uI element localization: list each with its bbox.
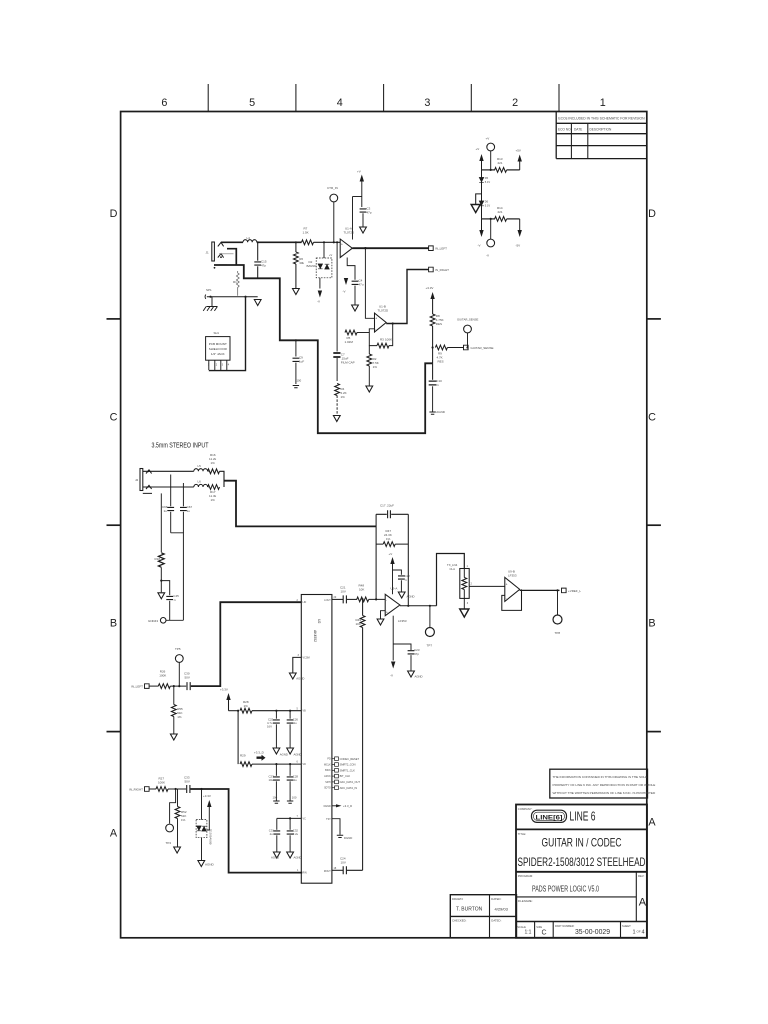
svg-text:1%: 1%: [211, 461, 216, 465]
svg-text:GUITAR IN / CODEC: GUITAR IN / CODEC: [542, 836, 622, 850]
wire: [170, 685, 186, 687]
connector J1 guitar jack: [212, 242, 234, 269]
capacitor C21: [343, 595, 346, 603]
wire to codec RIN: [191, 789, 303, 873]
op-amp U1-A TL072D: [340, 239, 352, 258]
inductor L4: [243, 240, 257, 243]
diode pair D10 BAV99: [201, 789, 203, 820]
test point TP7: [429, 606, 431, 628]
film capacitor C7: [336, 333, 338, 352]
svg-text:ECO NO: ECO NO: [558, 128, 571, 132]
test point -V: [490, 219, 492, 239]
svg-text:47p: 47p: [367, 211, 372, 215]
capacitor C10: [432, 363, 434, 380]
bias line to R5: [336, 242, 338, 332]
resistor R14 221: [495, 217, 507, 222]
svg-text:3.5mm STEREO INPUT: 3.5mm STEREO INPUT: [152, 443, 210, 450]
test point TP4: [170, 789, 176, 824]
LINE6 logo: [532, 810, 567, 822]
svg-text:THE INFORMATION CONTAINED IN T: THE INFORMATION CONTAINED IN THIS DRAWIN…: [553, 775, 648, 779]
svg-text:+3.3V: +3.3V: [203, 794, 211, 798]
svg-text:TP4: TP4: [166, 841, 172, 845]
op-amp U9-A LF353: [385, 594, 400, 615]
resistor R26 100K: [158, 684, 170, 689]
svg-text:1.02M: 1.02M: [345, 340, 354, 344]
svg-text:L5: L5: [198, 464, 202, 468]
wire L4 to R7: [257, 241, 302, 243]
svg-text:C: C: [542, 930, 547, 937]
svg-text:10K: 10K: [359, 588, 364, 592]
resistor R8 4.75K: [430, 314, 435, 326]
ground below C3: [360, 227, 367, 233]
svg-text:10V: 10V: [341, 861, 346, 865]
svg-text:1u: 1u: [164, 509, 168, 513]
ground at wire end: [254, 300, 261, 306]
svg-text:SMRT1_CLK: SMRT1_CLK: [340, 768, 356, 772]
svg-text:5: 5: [249, 97, 255, 109]
svg-text:+V: +V: [486, 137, 490, 141]
ground bus wire from jack sleeve: [214, 265, 433, 433]
wire to U1-B + input: [365, 248, 374, 318]
ground AGND: [289, 673, 296, 679]
op-amp U9-B LF353: [505, 577, 520, 601]
svg-text:TL072D: TL072D: [378, 309, 390, 313]
svg-text:LINE 6: LINE 6: [570, 808, 596, 823]
svg-text:1uF: 1uF: [299, 360, 304, 364]
svg-text:-V: -V: [317, 300, 320, 304]
svg-text:PD: PD: [327, 758, 331, 761]
svg-text:.1: .1: [173, 598, 176, 602]
svg-text:R18: R18: [155, 557, 161, 561]
svg-text:TL072D: TL072D: [344, 231, 356, 235]
svg-text:+V: +V: [476, 147, 480, 151]
svg-text:-V: -V: [343, 290, 346, 294]
wire jack tip to L4: [221, 241, 243, 243]
svg-text:RIN: RIN: [303, 872, 307, 875]
svg-text:10K: 10K: [356, 622, 361, 626]
wire bottom: [152, 486, 194, 488]
svg-text:TP7: TP7: [427, 644, 433, 648]
svg-text:+: +: [375, 317, 377, 321]
svg-text:47p: 47p: [261, 264, 266, 268]
resistor R52 51K: [177, 789, 179, 807]
wire: [149, 788, 156, 790]
ground AGND: [287, 748, 294, 754]
svg-text:CTR_IN: CTR_IN: [327, 186, 338, 190]
svg-text:TST: TST: [326, 818, 331, 821]
power -V arrow below D2: [318, 291, 322, 298]
svg-text:B: B: [110, 618, 117, 630]
svg-text:SHIELD FOR: SHIELD FOR: [209, 347, 228, 351]
op-amp U1-B TL072D: [375, 313, 387, 332]
svg-text:TP8: TP8: [555, 631, 561, 635]
capacitor C45: [161, 581, 169, 596]
svg-text:LF353: LF353: [398, 619, 407, 623]
svg-text:SCALE: SCALE: [517, 925, 526, 929]
svg-text:PADS POWER LOGIC V5.0: PADS POWER LOGIC V5.0: [532, 884, 599, 893]
svg-text:-: -: [386, 599, 387, 603]
title block outline: [516, 805, 647, 938]
svg-text:221: 221: [498, 210, 503, 214]
zone tick left D|C: [107, 318, 121, 320]
resistor R6 30k: [295, 242, 297, 252]
connector CHAS_GND: [160, 618, 166, 624]
ground AGND: [287, 852, 294, 858]
svg-text:U2: U2: [317, 619, 321, 623]
svg-text:J1: J1: [206, 251, 210, 255]
ground below R6: [293, 289, 300, 295]
zone tick left B|A: [107, 731, 121, 733]
ground below R4: [333, 416, 340, 422]
ground AGND: [273, 852, 280, 858]
resistor R7 1.5K: [302, 240, 314, 245]
capacitor C31: [276, 818, 278, 829]
svg-text:221: 221: [498, 161, 503, 165]
svg-text:2: 2: [512, 97, 518, 109]
svg-text:1%: 1%: [177, 715, 182, 719]
svg-text:D10 BAV99: D10 BAV99: [209, 829, 213, 845]
svg-text:5.1V: 5.1V: [485, 204, 491, 208]
svg-text:1/4" JACK: 1/4" JACK: [211, 352, 225, 356]
wire: [347, 598, 357, 600]
svg-text:100: 100: [273, 796, 278, 800]
svg-text:B: B: [648, 618, 655, 630]
svg-text:SP1: SP1: [206, 288, 212, 292]
svg-text:SDTI: SDTI: [325, 781, 331, 784]
svg-text:+V: +V: [389, 552, 393, 556]
svg-text:1:1: 1:1: [525, 930, 532, 936]
svg-text:1%: 1%: [386, 537, 391, 541]
svg-text:16V: 16V: [267, 725, 272, 729]
svg-text:2.2u: 2.2u: [293, 832, 299, 836]
resistor R5 1.02M: [345, 330, 357, 335]
svg-text:100K: 100K: [158, 781, 165, 785]
svg-text:BIT_CLK: BIT_CLK: [340, 774, 351, 778]
svg-text:J2: J2: [135, 478, 139, 482]
diode D6: [479, 201, 484, 206]
svg-text:DATED:: DATED:: [491, 919, 501, 923]
wire shield pins to ground bus: [209, 297, 246, 371]
ground below R2: [366, 386, 373, 392]
svg-text:WITHOUT THE WRITTEN PERMISSION: WITHOUT THE WRITTEN PERMISSION OF LINE 6…: [553, 791, 656, 795]
svg-text:L6: L6: [198, 480, 202, 484]
svg-text:-V: -V: [390, 674, 393, 678]
svg-text:U9-A: U9-A: [391, 587, 398, 591]
connector IN_RIGHT: [429, 267, 434, 272]
svg-text:PCB MOUNT: PCB MOUNT: [209, 342, 227, 346]
resistor R9 4.7K: [432, 346, 434, 348]
svg-text:.1u: .1u: [293, 721, 297, 725]
ground AGND: [273, 748, 280, 754]
connector GUITAR_SENSE: [464, 345, 469, 350]
svg-text:OF: OF: [637, 930, 641, 934]
svg-text:1u: 1u: [187, 509, 191, 513]
wire codec VC: [277, 817, 302, 819]
wire to -5V: [507, 218, 520, 220]
svg-text:REV:: REV:: [638, 874, 645, 878]
svg-text:D5: D5: [485, 176, 489, 180]
capacitor C24: [343, 866, 346, 874]
capacitor C4: [352, 281, 359, 284]
svg-text:3: 3: [424, 97, 430, 109]
drawn block: [450, 895, 516, 938]
svg-text:ROUT: ROUT: [324, 870, 331, 873]
resistor R48: [357, 597, 369, 602]
resistor R16 11.2k: [208, 469, 220, 474]
wire: [168, 788, 186, 790]
svg-text:R29: R29: [240, 754, 246, 758]
svg-text:1%: 1%: [181, 818, 186, 822]
svg-text:D: D: [110, 208, 118, 220]
wire: [149, 685, 158, 687]
svg-text:1: 1: [600, 97, 606, 109]
svg-text:1.5K: 1.5K: [303, 231, 309, 235]
svg-text:DGND: DGND: [324, 805, 331, 808]
resistor R29: [240, 762, 252, 767]
connector +VREF_L: [562, 588, 567, 593]
resistor R55 51K: [173, 686, 175, 704]
svg-text:LRCK: LRCK: [324, 775, 331, 778]
wire: [347, 869, 363, 871]
svg-text:10u: 10u: [269, 778, 274, 782]
svg-text:+V: +V: [357, 170, 361, 174]
ground below R52: [174, 847, 181, 853]
ground DGND at codec TST pin: [332, 819, 340, 835]
svg-text:47p: 47p: [414, 652, 419, 656]
power -V at U9-A: [392, 616, 394, 661]
ground AGND: [429, 412, 435, 414]
zone tick right B|A: [647, 731, 661, 733]
diode D5: [481, 170, 483, 219]
svg-text:+: +: [386, 611, 388, 615]
svg-text:L4: L4: [247, 236, 251, 240]
power +5V arrow: [518, 155, 522, 162]
svg-text:GUITAR_SENSE: GUITAR_SENSE: [471, 346, 494, 350]
svg-text:IN_LEFT: IN_LEFT: [435, 247, 447, 251]
wire U9-B output: [520, 589, 560, 591]
resistor R28: [240, 708, 252, 713]
svg-text:10V: 10V: [341, 590, 346, 594]
svg-text:C17 .22uF: C17 .22uF: [380, 504, 394, 508]
svg-text:50V: 50V: [185, 780, 190, 784]
power +V arrow: [360, 175, 364, 182]
svg-text:.1: .1: [436, 383, 439, 387]
svg-text:VC: VC: [303, 817, 307, 820]
svg-text:VB: VB: [303, 710, 307, 713]
wire to U9-A inverting: [369, 598, 386, 600]
capacitor C26: [289, 711, 291, 719]
svg-text:AGND: AGND: [280, 753, 288, 757]
svg-text:+: +: [341, 242, 343, 246]
capacitor C22: [393, 570, 402, 575]
svg-text:A: A: [639, 897, 647, 909]
wire R7 to U1-A: [314, 241, 341, 243]
zone tick top 2|1: [558, 84, 560, 112]
svg-text:1%: 1%: [373, 365, 378, 369]
svg-text:COMPANY:: COMPANY:: [518, 807, 533, 811]
wire caps common: [171, 533, 184, 621]
svg-text:T. BURTON: T. BURTON: [456, 907, 483, 913]
svg-text:+: +: [506, 583, 508, 587]
svg-text:TP5: TP5: [175, 647, 181, 651]
wire LOUT: [332, 598, 343, 600]
wire to codec LIN: [191, 602, 301, 686]
inductor L5: [194, 469, 208, 472]
svg-text:PROGRAM:: PROGRAM:: [518, 874, 533, 878]
notice box: [550, 769, 648, 798]
svg-text:AGND: AGND: [407, 595, 415, 599]
svg-text:.1u: .1u: [269, 832, 273, 836]
inductor L6: [194, 484, 208, 487]
svg-text:A: A: [110, 828, 118, 840]
wire codec VCOM to AGND: [293, 657, 302, 672]
capacitor C23: [393, 644, 411, 650]
ground AGND below D10: [201, 838, 203, 860]
svg-text:+3.3_D: +3.3_D: [343, 804, 352, 808]
power -V arrow: [481, 219, 483, 230]
resistor R17 11.3k: [207, 486, 210, 488]
svg-text:C: C: [110, 412, 118, 424]
wire: [207, 470, 210, 472]
zone tick top 6|5: [207, 84, 209, 112]
svg-text:IN_RIGHT: IN_RIGHT: [435, 268, 449, 272]
svg-text:DESCRIPTION: DESCRIPTION: [590, 128, 612, 132]
svg-text:AK4552: AK4552: [313, 630, 317, 642]
svg-text:MCLK: MCLK: [324, 763, 331, 766]
codec pin numbers: [297, 596, 337, 872]
diode pair D2 BAV99: [307, 242, 333, 288]
wire: [166, 619, 183, 621]
chassis ground: [211, 297, 213, 307]
svg-text:DATED:: DATED:: [491, 897, 501, 901]
svg-text:CHECKED:: CHECKED:: [452, 919, 467, 923]
svg-text:LOUT: LOUT: [324, 599, 331, 602]
wire: [220, 471, 225, 487]
svg-text:100: 100: [292, 796, 297, 800]
svg-text:DAC_DATA_OUT: DAC_DATA_OUT: [340, 780, 361, 784]
svg-text:AGND: AGND: [271, 856, 279, 860]
svg-text:-: -: [506, 596, 507, 600]
power -5V arrow: [519, 219, 521, 230]
ground DGND: [273, 801, 279, 803]
wire to +5V: [507, 169, 520, 171]
wire to codec VD: [252, 763, 301, 765]
ground at U9-A + input: [381, 611, 386, 619]
svg-text:CLA: CLA: [450, 567, 456, 571]
node: [257, 241, 259, 243]
svg-text:GUITAR_SENSE: GUITAR_SENSE: [457, 318, 479, 322]
svg-text:1%: 1%: [244, 704, 249, 708]
zone tick top 5|4: [295, 84, 297, 112]
svg-text:1: 1: [633, 930, 636, 936]
capacitor C17 .22uF: [388, 510, 391, 518]
wire TX_LN4 to U9-B: [469, 585, 505, 587]
capacitor C32: [289, 818, 291, 829]
ground below TX_LN4: [463, 598, 465, 608]
svg-text:1%: 1%: [341, 395, 346, 399]
capacitor C66: [170, 475, 172, 507]
codec pin names right: [324, 599, 332, 873]
codec pin names left: [303, 601, 310, 874]
svg-text:ECOs INCLUDED IN THIS SCHEMATI: ECOs INCLUDED IN THIS SCHEMATIC FOR REVI…: [558, 117, 645, 121]
zone tick right D|C: [647, 318, 661, 320]
svg-text:100K: 100K: [385, 338, 392, 342]
wire to codec VB: [252, 710, 301, 712]
svg-text:+3.3_D: +3.3_D: [254, 751, 265, 755]
capacitor C3 47pF: [360, 209, 367, 212]
power +V bypass at U9-A: [390, 557, 394, 564]
resistor R27 100K: [156, 787, 168, 792]
svg-text:AGND: AGND: [294, 856, 302, 860]
svg-text:SMRT2_CON: SMRT2_CON: [340, 763, 356, 767]
wire ROUT: [332, 869, 343, 871]
node + ground arrow: [160, 580, 162, 582]
svg-text:-: -: [375, 328, 376, 332]
capacitor C25: [275, 711, 277, 719]
svg-text:100K: 100K: [159, 674, 166, 678]
resistor R1: [236, 271, 239, 296]
ground TGND below C9: [293, 386, 299, 388]
svg-text:35-00-0029: 35-00-0029: [575, 929, 610, 936]
svg-text:4/29/03: 4/29/03: [495, 907, 509, 912]
resistor R2 7.5K: [368, 346, 370, 354]
svg-text:AGND: AGND: [415, 675, 423, 679]
svg-text:VCOM: VCOM: [303, 656, 310, 659]
svg-text:BAV99: BAV99: [307, 264, 316, 268]
svg-text:D: D: [648, 208, 656, 220]
svg-text:VD: VD: [303, 763, 307, 766]
svg-text:-V: -V: [478, 244, 481, 248]
capacitor C33: [187, 785, 190, 793]
ground DGND: [287, 801, 293, 803]
capacitor C67: [182, 483, 184, 506]
ground below R55: [170, 734, 177, 740]
svg-text:FILENAME:: FILENAME:: [518, 899, 533, 903]
svg-text:5.1V: 5.1V: [485, 180, 491, 184]
zone tick top 4|3: [383, 84, 385, 112]
codec digital pin connectors: [332, 758, 335, 760]
svg-text:ADC_DATA_IN: ADC_DATA_IN: [340, 786, 358, 790]
svg-text:AGND: AGND: [436, 410, 446, 414]
wire: [482, 218, 496, 220]
svg-text:4: 4: [337, 97, 343, 109]
wire top: [152, 470, 194, 472]
svg-text:LF353: LF353: [508, 574, 517, 578]
svg-text:47u: 47u: [359, 283, 364, 287]
svg-text:+VREF_L: +VREF_L: [568, 589, 581, 593]
wire up-over to TX_LN4: [437, 554, 465, 606]
svg-text:-5V: -5V: [516, 244, 521, 248]
connector J2 stereo jack: [140, 469, 152, 494]
svg-text:DGND: DGND: [344, 836, 352, 840]
wire U1-A inverting chain: [347, 258, 355, 280]
svg-text:D6: D6: [485, 200, 489, 204]
ground below C4: [352, 305, 359, 311]
svg-text:SDTO: SDTO: [324, 787, 331, 790]
svg-text:AGND: AGND: [296, 677, 304, 681]
zone tick right C|B: [647, 524, 661, 526]
capacitor C9: [295, 340, 297, 356]
svg-text:GND43: GND43: [148, 619, 158, 623]
svg-text:C: C: [648, 412, 656, 424]
svg-text:CODEC_RESET: CODEC_RESET: [340, 757, 360, 761]
wire: [376, 543, 408, 545]
wire U9-A output: [400, 605, 437, 607]
svg-text:TITLE:: TITLE:: [518, 832, 527, 836]
svg-text:DRAWN:: DRAWN:: [452, 897, 463, 901]
wire down: [237, 711, 239, 764]
resistor R4 2.2K: [335, 384, 340, 396]
